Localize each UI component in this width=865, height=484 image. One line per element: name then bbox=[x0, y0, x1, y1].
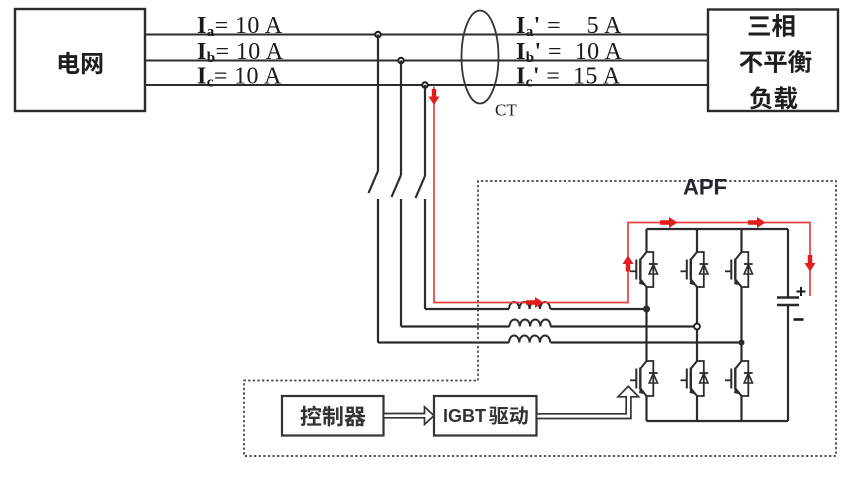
red arrow right (top DC bus left) bbox=[660, 217, 678, 228]
wire phase c line bbox=[145, 84, 708, 86]
wire row 2 (phase b to leg2) bbox=[401, 325, 510, 327]
wire vertical drop x=378 lower bbox=[377, 199, 379, 343]
wire vertical drop x=425 upper bbox=[424, 85, 426, 176]
wire bridge leg 1 bbox=[645, 229, 647, 252]
switch blade on x=425 bbox=[416, 176, 426, 198]
wire bridge leg 3 bbox=[740, 229, 742, 252]
red arrow right (on L1) bbox=[526, 297, 544, 308]
wire DC bottom bus bbox=[647, 420, 789, 422]
red arrow up (left DC bus riser) bbox=[623, 256, 634, 272]
wire vertical drop x=401 lower bbox=[400, 199, 402, 327]
red arrow down (right DC riser) bbox=[805, 255, 816, 272]
wire vertical drop x=401 upper bbox=[400, 61, 402, 176]
wire row 1 (phase c to leg1) bbox=[425, 308, 509, 310]
IGBT Q3 (upper leg 3) bbox=[735, 252, 741, 287]
red arrow down (at CT tap) bbox=[429, 89, 440, 105]
wire phase a line bbox=[145, 34, 708, 36]
inductor L2 bbox=[510, 320, 551, 327]
svg-text:APF: APF bbox=[683, 175, 727, 200]
wire vertical drop x=378 upper bbox=[377, 35, 379, 172]
wire DC top bus bbox=[647, 228, 789, 230]
arrow IGBT-drive to gate bbox=[537, 386, 639, 418]
node leg2 phase tap (open) bbox=[694, 324, 700, 330]
arrow controller to IGBT-drive bbox=[384, 407, 435, 425]
capacitor - polarity mark bbox=[794, 318, 804, 321]
red injected current path bbox=[434, 87, 810, 303]
controller box 控制器 bbox=[282, 396, 384, 436]
IGBT Q4 (lower leg 1) bbox=[640, 361, 646, 396]
node junction at (401,60.5) bbox=[398, 58, 403, 63]
inductor L3 bbox=[509, 336, 550, 343]
IGBT Q2 (upper leg 2) bbox=[691, 252, 697, 287]
wire phase b line bbox=[145, 60, 708, 62]
svg-text:CT: CT bbox=[495, 101, 517, 120]
wire capacitor branch lower bbox=[787, 305, 789, 421]
capacitor C plates bbox=[777, 296, 799, 298]
wire row 3 (phase a to leg3) bbox=[378, 341, 509, 343]
current transformer CT ellipse bbox=[462, 11, 499, 104]
node leg3 phase tap bbox=[739, 340, 745, 346]
APF dashed boundary bbox=[244, 181, 836, 456]
node junction at (425,85) bbox=[422, 82, 427, 87]
IGBT drive box IGBT驱动 bbox=[434, 396, 537, 436]
switch blade on x=378 bbox=[369, 171, 379, 193]
three-phase unbalanced load box 三相不平衡负载 bbox=[708, 10, 838, 112]
IGBT Q1 (upper leg 1) bbox=[640, 252, 646, 287]
wire capacitor branch upper bbox=[787, 229, 789, 298]
svg-text:IGBT: IGBT bbox=[443, 406, 486, 426]
wire vertical drop x=425 lower bbox=[424, 199, 426, 309]
wire bridge leg 2 bbox=[696, 229, 698, 252]
switch blade on x=401 bbox=[392, 175, 402, 197]
IGBT Q6 (lower leg 3) bbox=[735, 361, 741, 396]
inductor L1 bbox=[509, 302, 550, 309]
node leg1 phase tap bbox=[644, 306, 650, 312]
grid source box 电网 bbox=[15, 9, 145, 111]
red arrow right (top DC bus right) bbox=[748, 217, 766, 228]
capacitor + polarity mark bbox=[797, 287, 806, 296]
node junction at (378,34.5) bbox=[375, 32, 380, 37]
IGBT Q5 (lower leg 2) bbox=[691, 361, 697, 396]
